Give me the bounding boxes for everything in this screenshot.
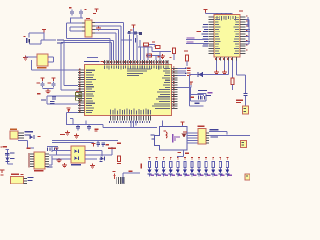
LED column 11: resistor + LED (218, 157, 224, 177)
U2 bottom pins (216, 57, 237, 61)
wire (47, 95, 58, 104)
power VCC P8 (180, 122, 184, 127)
capacitor C10 (244, 93, 248, 106)
capacitor C14 (96, 141, 100, 147)
diode D6 (101, 157, 106, 161)
wire (149, 44, 156, 47)
wire (67, 38, 111, 39)
U3 right pins (92, 22, 95, 34)
connector J3 pins (116, 177, 124, 184)
red text (236, 100, 243, 104)
wire (29, 33, 30, 38)
wire (48, 57, 54, 63)
wire (85, 150, 103, 156)
capacitor C2 (79, 9, 86, 16)
resistor R3 (173, 48, 176, 60)
wire (189, 75, 190, 95)
wire (138, 40, 152, 48)
U2 bottom pin numbers (215, 58, 232, 60)
ic U8 optocoupler (71, 146, 85, 163)
wire (29, 33, 44, 34)
LED column 10: resistor + LED (211, 157, 217, 177)
U1 ref label (84, 61, 105, 62)
connector J2 (241, 141, 247, 148)
wire (85, 147, 113, 155)
wire (177, 150, 184, 157)
wire (7, 164, 13, 165)
wire (216, 61, 225, 71)
U7 right pins (24, 178, 28, 184)
wire (162, 121, 163, 127)
LED column 5: resistor + LED (176, 157, 182, 177)
red speck (158, 56, 172, 58)
power VCC P11 (91, 142, 95, 146)
capacitor C6 (50, 101, 54, 104)
red mark (178, 152, 190, 154)
LED D5 (6, 158, 15, 162)
wire rail (66, 124, 103, 125)
wire (70, 18, 83, 19)
wire (249, 20, 250, 44)
red text (197, 31, 202, 32)
wire (18, 140, 34, 149)
wire (187, 132, 198, 143)
U1 right pins (172, 67, 178, 109)
wire (52, 140, 118, 141)
U1 bottom pin names (110, 109, 151, 115)
wire (190, 88, 206, 102)
wire (57, 103, 78, 104)
wire (133, 28, 134, 33)
wire (95, 26, 99, 27)
wire (246, 19, 251, 44)
polarized cap C16 (113, 171, 117, 179)
ground G8 (62, 163, 67, 168)
U1 top pins (103, 60, 169, 65)
wire loop (189, 94, 204, 107)
wire (178, 68, 187, 76)
U2 right pin numbers (246, 16, 248, 51)
power VCC P1 (93, 9, 99, 15)
diode D4 (30, 135, 41, 139)
power VCC P7 (203, 9, 207, 13)
wire (209, 61, 229, 76)
U5 net labels (25, 131, 34, 135)
ground G7 (57, 158, 62, 163)
diode D2 (190, 72, 210, 77)
wire (49, 150, 57, 156)
ground near U3 (96, 26, 101, 31)
diode D3 (182, 132, 188, 138)
U2 left pins (209, 17, 215, 54)
U8 label (71, 164, 81, 165)
resistor R6 (231, 78, 234, 90)
wire (52, 142, 94, 143)
U3 label (86, 18, 90, 19)
Y2 value label (41, 99, 46, 100)
label (47, 166, 53, 167)
transistor Q1 (128, 29, 137, 34)
wire (156, 56, 161, 61)
wire (81, 16, 82, 19)
LED column 3: resistor + LED (162, 157, 168, 177)
wire loop (47, 146, 58, 147)
diode D1 (139, 32, 142, 35)
wire (87, 57, 98, 58)
U2 right pins (240, 17, 246, 54)
wire (131, 120, 137, 128)
net label violet (186, 38, 209, 40)
wire (61, 42, 112, 60)
wire (95, 33, 117, 61)
ground arrow (67, 108, 71, 112)
ground G3 (65, 131, 70, 136)
wire (123, 173, 140, 184)
U1 right pin names (152, 68, 170, 109)
U5 label (10, 129, 17, 131)
wire (29, 40, 56, 45)
net stub (100, 159, 104, 163)
LED column 1: resistor + LED (148, 157, 154, 177)
U1 top pin names (104, 65, 169, 69)
resistor R5 (184, 51, 188, 67)
red labels (187, 68, 191, 76)
capacitor C15 (101, 142, 105, 147)
power VCC P10 (0, 170, 4, 176)
ground G9 (90, 164, 95, 169)
U5 right pins (18, 133, 24, 139)
wire (110, 39, 111, 61)
LED column 12: resistor + LED (225, 157, 231, 177)
power VCC P4 (40, 78, 44, 82)
wire (31, 60, 78, 71)
junction dots (185, 68, 187, 74)
net label (37, 93, 41, 95)
red label (1, 146, 8, 148)
red mark (106, 144, 110, 145)
wire (127, 33, 140, 34)
ic U4 (37, 54, 48, 66)
red mark (27, 148, 31, 149)
ic U1 C8051F040 (85, 65, 172, 116)
capacitor C8 (87, 124, 91, 130)
varistor RV1 (172, 134, 180, 143)
crystal Y2 (52, 96, 56, 100)
ground G4 (74, 134, 79, 139)
capacitor C13 (54, 147, 57, 150)
U1 left pin names (86, 70, 96, 114)
ground G2 (46, 89, 51, 94)
resistor R7 (117, 156, 121, 164)
ground G5 (214, 70, 219, 75)
LED column 4: resistor + LED (169, 157, 175, 177)
red label (108, 148, 116, 149)
red text (60, 134, 65, 135)
resistor R1 (144, 43, 149, 46)
wire (198, 93, 206, 94)
red mark (191, 97, 195, 98)
U8 internals (75, 150, 80, 161)
capacitor C3 (133, 38, 136, 42)
U2 left pin names (215, 17, 221, 54)
U2 top pin names (217, 16, 236, 21)
LED column 6: resistor + LED (183, 157, 189, 177)
connector J4 (245, 174, 250, 180)
wire (232, 61, 233, 79)
wire (26, 57, 38, 58)
U1 bottom pins (109, 116, 151, 124)
power VCC P6 (189, 82, 193, 86)
U6 pins (30, 154, 49, 168)
wire (209, 131, 250, 136)
ic U7 (11, 177, 24, 185)
wire (152, 47, 172, 52)
schematic background (0, 0, 250, 184)
ground G1 (23, 56, 28, 61)
wire (95, 26, 122, 61)
switch S1 (198, 95, 201, 99)
LED column 2: resistor + LED (155, 157, 161, 177)
capacitor C7 (76, 124, 80, 130)
capacitor C5 (52, 82, 56, 88)
ic U6 (34, 152, 45, 169)
ground G10 (160, 54, 165, 59)
wire (66, 112, 78, 125)
U2 right pin names (234, 17, 240, 54)
wire (95, 22, 124, 60)
ic U2 (214, 15, 240, 58)
cap labels (37, 83, 52, 84)
U1 left pins (78, 69, 85, 114)
U4 label (37, 67, 47, 69)
U2 left net labels (202, 24, 209, 47)
U7 label (11, 174, 24, 176)
dark line (29, 153, 30, 168)
resistor R4 (147, 54, 152, 57)
ic U9 (198, 129, 206, 145)
wire (236, 61, 246, 94)
wire (52, 150, 71, 159)
wire (64, 41, 79, 87)
capacitor C12 (47, 147, 50, 150)
wire (67, 23, 83, 24)
connector J1 (243, 106, 249, 114)
power VCC P5 (51, 78, 55, 82)
relay coil L1 (164, 131, 168, 139)
wire (205, 12, 233, 14)
capacitor C9 (202, 95, 205, 100)
power VCC P2 (42, 29, 46, 33)
wire (129, 33, 149, 60)
wire (6, 149, 10, 164)
wire (66, 23, 67, 39)
label (195, 95, 212, 104)
LED column 8: resistor + LED (197, 157, 203, 177)
U3 left pins (82, 23, 85, 32)
capacitor C11 (5, 152, 14, 155)
component pair (76, 91, 82, 100)
U1 inner port names (127, 68, 151, 76)
power VCC P9 (54, 148, 58, 152)
wire (64, 40, 114, 60)
wire (85, 120, 86, 125)
wire (85, 159, 97, 160)
wire (103, 124, 158, 128)
U6 label (34, 170, 44, 172)
red vertical label (141, 164, 142, 169)
power VCC P3 (131, 25, 135, 29)
wire (70, 118, 74, 125)
U7 net labels (28, 177, 34, 181)
U2 ref label (239, 11, 243, 12)
wire (247, 17, 248, 27)
crystal Y1 (24, 36, 31, 43)
switch contact (151, 135, 155, 140)
ground G6 (222, 70, 227, 75)
capacitor C1 (69, 7, 74, 15)
net label violet 2 (186, 42, 209, 44)
U2 top pins (217, 13, 232, 14)
wire (43, 88, 54, 89)
net label XTAL (57, 39, 64, 43)
wire (95, 29, 119, 60)
resistor R2 (152, 42, 160, 49)
reset label (198, 90, 213, 94)
U9 right pins (206, 132, 209, 143)
capacitor C4 (41, 82, 45, 88)
red label (95, 129, 99, 132)
relay box (155, 127, 187, 151)
U9 net labels (210, 129, 219, 137)
red label (129, 171, 133, 172)
LED column 7: resistor + LED (190, 157, 196, 177)
LED column 9: resistor + LED (204, 157, 210, 177)
wire (178, 85, 192, 88)
ic U5 (10, 131, 18, 139)
wire (70, 27, 83, 32)
wire (70, 18, 71, 23)
U9 label (198, 126, 205, 128)
ic U3 (85, 20, 92, 37)
wire (61, 43, 79, 91)
wire (57, 95, 78, 96)
wire (44, 32, 45, 40)
wire (49, 147, 53, 166)
red mark (117, 143, 121, 144)
wire (121, 35, 133, 45)
wire (146, 52, 161, 57)
